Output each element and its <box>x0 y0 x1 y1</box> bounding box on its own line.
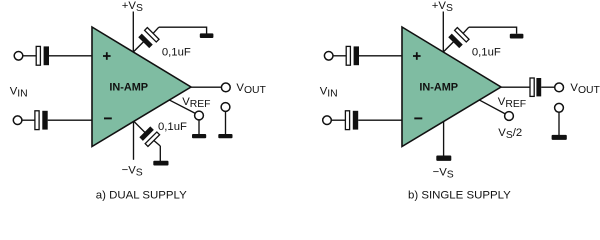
wire <box>333 55 346 57</box>
wire <box>331 119 345 121</box>
node VREF terminal (a) <box>195 111 204 120</box>
wire <box>225 111 227 134</box>
node: -IN input terminal (a) <box>13 116 22 125</box>
ground (-VS pin, b) <box>436 156 451 161</box>
wire <box>22 119 35 121</box>
wire <box>159 146 161 161</box>
wire <box>469 27 517 34</box>
wire VREF pin (b) <box>479 100 505 114</box>
wire <box>49 55 92 57</box>
svg-text:+VS: +VS <box>432 0 453 14</box>
ground (output return, a) <box>218 134 232 138</box>
coupling capacitor C3 (+IN, b) <box>346 46 359 65</box>
svg-text:0,1uF: 0,1uF <box>158 121 187 133</box>
coupling capacitor C2 (-IN, a) <box>35 111 48 130</box>
bypass capacitor 0.1uF bottom (a) <box>134 121 161 146</box>
node: +IN input terminal (a) <box>14 52 23 61</box>
wire -VS rail (a) <box>133 121 135 160</box>
svg-text:VOUT: VOUT <box>570 82 600 96</box>
wire <box>48 119 92 121</box>
in-amp U1 (a) <box>92 27 191 147</box>
wire <box>358 119 402 121</box>
svg-text:VOUT: VOUT <box>236 82 266 96</box>
svg-text:b) SINGLE SUPPLY: b) SINGLE SUPPLY <box>408 190 511 202</box>
ground (top bypass, a) <box>200 33 214 38</box>
wire output (a) <box>191 86 222 88</box>
wire -VS pin to ground (b) <box>443 121 445 156</box>
op-amp + input marker (a) <box>103 52 111 60</box>
ground (VREF, a) <box>192 134 206 138</box>
node: +IN input terminal (b) <box>324 52 333 61</box>
svg-text:+VS: +VS <box>122 0 143 14</box>
ground (bottom bypass, a) <box>153 161 168 166</box>
output coupling capacitor C5 (b) <box>530 78 541 96</box>
svg-text:a) DUAL SUPPLY: a) DUAL SUPPLY <box>96 190 187 202</box>
wire <box>558 112 560 135</box>
ground (output return, b) <box>552 135 567 140</box>
node output return terminal (b) <box>555 103 564 112</box>
svg-text:−VS: −VS <box>433 166 454 180</box>
bypass capacitor 0.1uF top (a) <box>133 27 159 52</box>
svg-text:VREF: VREF <box>498 96 526 110</box>
svg-text:VIN: VIN <box>10 86 28 100</box>
svg-text:VIN: VIN <box>320 86 338 100</box>
wire +VS rail (a) <box>132 12 134 53</box>
svg-text:0,1uF: 0,1uF <box>162 46 191 58</box>
coupling capacitor C4 (-IN, b) <box>345 111 358 130</box>
svg-text:VREF: VREF <box>182 96 210 110</box>
node VOUT terminal (b) <box>555 83 564 92</box>
coupling capacitor C1 (+IN, a) <box>36 46 49 65</box>
wire <box>359 55 402 57</box>
ground (top bypass, b) <box>510 34 524 39</box>
wire <box>198 120 200 134</box>
wire output (b) <box>501 86 530 88</box>
node output return terminal (a) <box>221 103 230 112</box>
svg-text:−VS: −VS <box>122 165 143 179</box>
node VREF terminal / VS/2 (b) <box>505 112 514 121</box>
in-amp U2 (b) <box>402 27 501 147</box>
op-amp - input marker (a) <box>104 117 112 119</box>
wire +VS rail (b) <box>442 12 444 53</box>
wire VREF pin (a) <box>169 100 195 114</box>
svg-text:IN-AMP: IN-AMP <box>109 81 148 93</box>
svg-text:IN-AMP: IN-AMP <box>419 81 458 93</box>
wire <box>541 86 555 88</box>
svg-text:VS/2: VS/2 <box>498 127 522 141</box>
op-amp - input marker (b) <box>414 117 422 119</box>
svg-text:0,1uF: 0,1uF <box>472 46 501 58</box>
wire <box>159 27 207 33</box>
op-amp + input marker (b) <box>413 52 421 60</box>
node: -IN input terminal (b) <box>323 116 332 125</box>
bypass capacitor 0.1uF (b) <box>443 27 469 52</box>
wire <box>23 55 36 57</box>
node VOUT terminal (a) <box>221 83 230 92</box>
